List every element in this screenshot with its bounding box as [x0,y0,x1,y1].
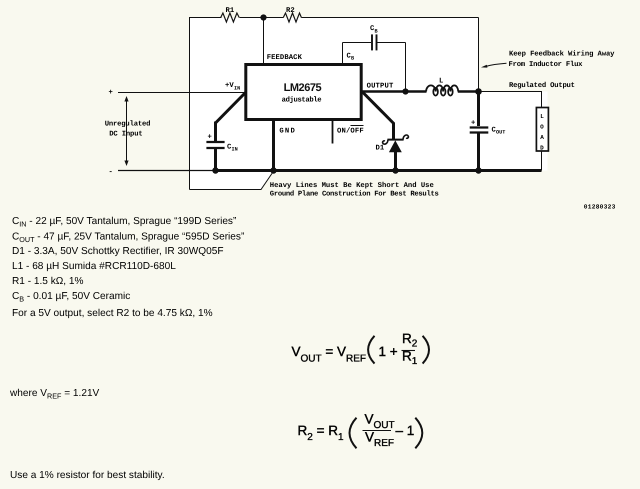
label COUT [492,127,506,136]
svg-text:+: + [208,134,212,142]
svg-text:ON/OFF: ON/OFF [337,127,364,136]
svg-text:Ground Plane Construction For: Ground Plane Construction For Best Resul… [270,190,439,199]
svg-text:CIN - 22 µF, 50V Tantalum, Spr: CIN - 22 µF, 50V Tantalum, Sprague “199D… [12,216,236,229]
svg-text:FEEDBACK: FEEDBACK [267,54,303,62]
svg-text:01280323: 01280323 [584,204,616,211]
op-amp U1 LM2675 box [246,65,361,120]
capacitor CB bootstrap [343,34,406,91]
pin label CB (on IC) [347,53,355,62]
annotation heavy lines note [270,181,439,199]
svg-text:From Inductor Flux: From Inductor Flux [509,60,584,69]
resistor R1 [221,13,240,22]
node GND [270,167,276,173]
wire: right vertical feedback sense [478,18,480,92]
svg-text:IN: IN [232,147,238,153]
label CB capacitor [370,25,378,35]
svg-text:R2: R2 [286,7,295,15]
svg-text:IN: IN [234,86,240,92]
svg-text:1 +: 1 + [379,344,398,359]
svg-text:L: L [439,78,443,86]
wire: R1 ground return bottom [190,171,275,190]
svg-text:Use a 1% resistor for best sta: Use a 1% resistor for best stability. [10,470,165,481]
wire: unregulated + input [118,92,246,94]
pin label ON/OFF with overline [337,126,364,136]
svg-text:Regulated Output: Regulated Output [509,81,575,90]
load box [536,108,548,152]
svg-text:L: L [540,113,544,120]
svg-text:DC Input: DC Input [109,131,143,139]
capacitor CIN [206,122,224,171]
svg-text:-: - [109,169,113,177]
arrow to feedback wire [481,63,507,67]
svg-text:D: D [540,144,544,151]
white interior of circuit [189,18,548,189]
svg-text:LM2675: LM2675 [284,82,322,94]
wire: top feedback rail [190,18,479,190]
wire: feedback pin drop [263,18,265,65]
svg-text:COUT - 47 µF, 25V Tantalum, Sp: COUT - 47 µF, 25V Tantalum, Sprague “595… [12,232,244,245]
svg-text:R1 - 1.5 kΩ, 1%: R1 - 1.5 kΩ, 1% [12,276,84,287]
wire: regulated output to load [479,92,542,108]
svg-text:OUT: OUT [496,130,505,136]
inductor L1 [426,85,458,95]
svg-text:R1: R1 [226,7,235,15]
svg-text:Keep Feedback Wiring Away: Keep Feedback Wiring Away [509,50,615,59]
capacitor COUT [470,92,489,171]
svg-text:+V: +V [225,82,234,90]
svg-text:D1 - 3.3A, 50V Schottky Rectif: D1 - 3.3A, 50V Schottky Rectifier, IR 30… [12,246,224,257]
node output [475,88,482,95]
svg-text:– 1: – 1 [396,423,415,438]
svg-text:GND: GND [279,128,295,136]
svg-text:B: B [375,29,378,35]
node junction R1/R2 feedback [260,14,266,20]
wire: ON/OFF stub [332,120,334,144]
svg-text:Heavy Lines Must Be Kept Shor: Heavy Lines Must Be Kept Short And Use [270,181,434,190]
node D1 ground [392,167,398,173]
svg-text:For a 5V output, select R2 to: For a 5V output, select R2 to be 4.75 kΩ… [12,308,213,319]
formula R2 [298,411,423,449]
label Unregulated DC Input [105,120,151,139]
dimension arrow input [124,96,128,166]
svg-text:D1: D1 [376,145,385,153]
node COUT ground [475,167,481,173]
svg-text:+: + [109,89,113,97]
svg-text:Unregulated: Unregulated [105,120,151,129]
svg-text:CB - 0.01 µF, 50V Ceramic: CB - 0.01 µF, 50V Ceramic [12,291,130,304]
wire: heavy VIN diagonal [216,93,246,124]
wire: heavy diagonal to D1 [362,92,394,138]
wire: heavy ground rail [216,169,542,172]
svg-text:B: B [351,56,354,62]
label CIN [227,144,238,153]
node CB output junction [402,88,408,94]
wire: OUTPUT pin heavy [361,90,427,92]
annotation keep feedback wiring [509,50,616,70]
wire: unregulated - input / ground rail thin [118,170,217,172]
pin label +VIN [225,82,240,92]
svg-text:L1 - 68 µH Sumida #RCR110D-680: L1 - 68 µH Sumida #RCR110D-680L [12,261,176,272]
svg-text:adjustable: adjustable [282,96,322,105]
formula VOUT [292,331,430,367]
svg-text:+: + [471,120,475,128]
svg-text:O: O [540,124,544,131]
resistor R2 [283,13,301,22]
svg-text:OUTPUT: OUTPUT [367,83,394,91]
node CIN ground [212,167,218,173]
diode D1 schottky [383,135,409,170]
svg-text:A: A [540,134,544,141]
wire: load bottom [541,152,543,171]
wire: GND pin heavy [272,120,275,171]
parts list [12,216,244,319]
